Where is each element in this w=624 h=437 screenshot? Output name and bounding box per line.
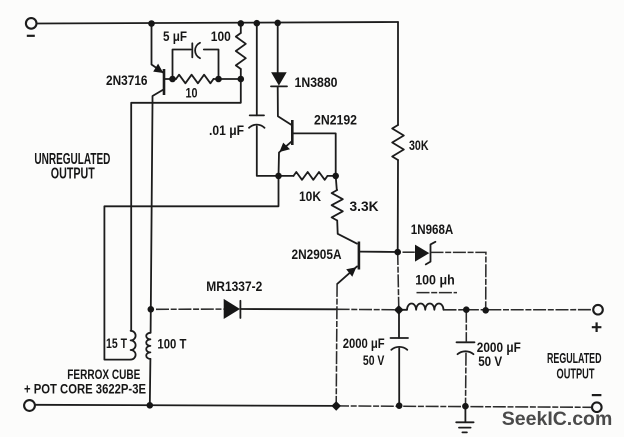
- svg-text:.01 μF: .01 μF: [209, 122, 244, 138]
- svg-text:MR1337-2: MR1337-2: [206, 278, 262, 294]
- svg-text:50 V: 50 V: [478, 353, 503, 369]
- svg-text:3.3K: 3.3K: [350, 198, 379, 214]
- svg-text:15 T: 15 T: [106, 336, 128, 351]
- svg-text:2N3716: 2N3716: [106, 72, 148, 88]
- svg-text:5 μF: 5 μF: [163, 29, 187, 44]
- svg-text:1N968A: 1N968A: [411, 221, 454, 237]
- svg-text:OUTPUT: OUTPUT: [557, 366, 595, 383]
- svg-text:50 V: 50 V: [363, 352, 385, 368]
- svg-text:100: 100: [211, 29, 231, 44]
- svg-text:+ POT CORE 3622P-3E: + POT CORE 3622P-3E: [24, 382, 146, 397]
- svg-text:2000 μF: 2000 μF: [343, 335, 385, 351]
- svg-text:10: 10: [186, 84, 198, 100]
- svg-text:100 T: 100 T: [157, 337, 187, 352]
- svg-text:2N2905A: 2N2905A: [292, 246, 342, 262]
- svg-text:FERROX CUBE: FERROX CUBE: [67, 367, 140, 382]
- svg-text:100 μh: 100 μh: [415, 271, 455, 287]
- svg-text:SeekIC.com: SeekIC.com: [502, 408, 613, 430]
- svg-text:2N2192: 2N2192: [314, 112, 357, 128]
- svg-text:10K: 10K: [299, 188, 321, 204]
- svg-text:1N3880: 1N3880: [295, 74, 338, 90]
- svg-text:30K: 30K: [409, 137, 429, 153]
- svg-text:OUTPUT: OUTPUT: [51, 165, 95, 182]
